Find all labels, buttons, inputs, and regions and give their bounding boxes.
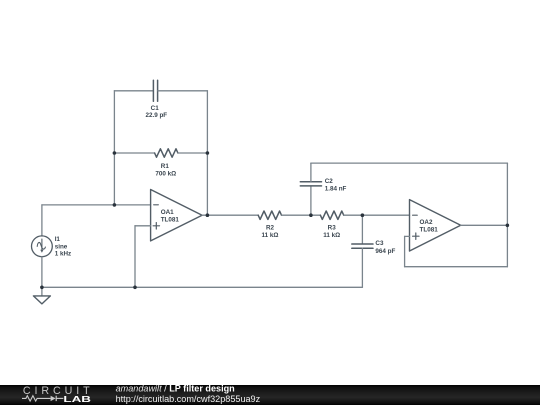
wire OA1 non-inverting input vertical bbox=[134, 226, 136, 287]
svg-text:C3: C3 bbox=[375, 240, 384, 247]
wire OA2 non-inverting vertical bbox=[404, 236, 406, 266]
wire top net C1 to right corner bbox=[158, 90, 208, 92]
junction source bottom node bbox=[40, 286, 44, 290]
junction OA1 plus at bottom net bbox=[133, 286, 137, 290]
resistor R2 bbox=[258, 211, 281, 219]
wire right vertical from top corner to output node bbox=[206, 91, 208, 215]
wire C3 top lead bbox=[361, 215, 363, 244]
svg-text:11 kΩ: 11 kΩ bbox=[262, 232, 279, 239]
CircuitLab logo diode bbox=[51, 396, 64, 401]
svg-text:11 kΩ: 11 kΩ bbox=[323, 232, 340, 239]
junction C2 node bbox=[309, 213, 313, 217]
svg-text:OA1: OA1 bbox=[161, 209, 174, 216]
svg-text:R2: R2 bbox=[266, 224, 275, 231]
wire C3 bottom lead bbox=[361, 248, 363, 287]
svg-text:C2: C2 bbox=[325, 178, 334, 185]
wire R1 right lead bbox=[178, 152, 208, 154]
op-amp OA1 bbox=[151, 190, 203, 241]
svg-text:22.9 pF: 22.9 pF bbox=[145, 112, 167, 119]
wire OA2 output bbox=[461, 224, 508, 226]
svg-text:R1: R1 bbox=[161, 163, 170, 170]
svg-text:TL081: TL081 bbox=[420, 227, 439, 234]
junction C3 node bbox=[361, 213, 365, 217]
footer bar bbox=[0, 385, 540, 405]
junction OA1 output node bbox=[206, 213, 210, 217]
svg-text:sine: sine bbox=[55, 243, 68, 250]
wire feedback right vertical bbox=[506, 163, 508, 267]
current source I1 bbox=[32, 236, 53, 257]
wire source I1 top lead bbox=[41, 205, 43, 236]
svg-text:TL081: TL081 bbox=[161, 216, 180, 223]
wire feedback top net bbox=[311, 162, 508, 164]
wire C2 bottom lead bbox=[310, 186, 312, 215]
capacitor C3 bbox=[352, 244, 373, 248]
wire OA2 non-inverting stub bbox=[405, 235, 410, 237]
wire source I1 bottom lead bbox=[41, 257, 43, 288]
svg-text:1.84 nF: 1.84 nF bbox=[325, 186, 347, 193]
wire top net left corner to C1 bbox=[114, 90, 153, 92]
wire R2 to R3 bbox=[282, 214, 321, 216]
svg-text:amandawilt / LP filter design: amandawilt / LP filter design bbox=[116, 383, 235, 393]
resistor R1 bbox=[155, 149, 178, 157]
svg-text:LAB: LAB bbox=[63, 394, 91, 404]
capacitor C2 bbox=[300, 182, 321, 186]
svg-text:C1: C1 bbox=[151, 105, 160, 112]
svg-text:700 kΩ: 700 kΩ bbox=[155, 170, 176, 177]
junction left at inverting net bbox=[113, 203, 117, 207]
svg-text:964 pF: 964 pF bbox=[375, 248, 395, 255]
resistor R3 bbox=[320, 211, 343, 219]
junction right at R1 bbox=[206, 151, 210, 155]
wire OA1 inverting input net bbox=[42, 204, 151, 206]
capacitor C1 bbox=[153, 80, 157, 101]
wire OA2 feedback bottom bbox=[405, 266, 508, 268]
svg-text:1 kHz: 1 kHz bbox=[55, 251, 71, 258]
wire ground stub bbox=[41, 287, 43, 296]
svg-text:R3: R3 bbox=[328, 224, 337, 231]
svg-text:http://circuitlab.com/cwf32p85: http://circuitlab.com/cwf32p855ua9z bbox=[116, 394, 261, 404]
wire R1 left lead bbox=[114, 152, 154, 154]
wire R3 to OA2 inverting input bbox=[344, 214, 410, 216]
junction left at R1 bbox=[113, 151, 117, 155]
CircuitLab logo resistor squiggle bbox=[22, 396, 51, 401]
wire OA1 output to R2 bbox=[202, 214, 258, 216]
wire bottom net bbox=[42, 286, 363, 288]
wire C2 top lead bbox=[310, 163, 312, 181]
wire left vertical from top corner to minus net bbox=[113, 91, 115, 205]
junction OA2 output node bbox=[506, 224, 510, 228]
op-amp OA2 bbox=[410, 200, 461, 251]
ground bbox=[33, 296, 50, 304]
svg-text:OA2: OA2 bbox=[420, 219, 433, 226]
wire OA1 non-inverting input horizontal bbox=[135, 225, 151, 227]
svg-text:I1: I1 bbox=[55, 236, 61, 243]
